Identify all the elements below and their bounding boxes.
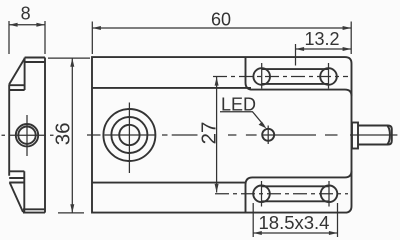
- dim 13.2 extension line: [295, 44, 297, 66]
- LED circle: [262, 129, 274, 141]
- main vertical crosshair of circle: [128, 103, 130, 174]
- bottom slot lines: [262, 186, 330, 201]
- side view left edge: [8, 84, 10, 176]
- svg-text:60: 60: [211, 10, 231, 30]
- side view right edge: [44, 58, 46, 213]
- step line A: [92, 87, 251, 89]
- bottom step vertical: [246, 177, 253, 212]
- sensor face circle middle: [111, 117, 147, 153]
- dim 18.5x3.4 line: [253, 232, 337, 234]
- sensor face circle outer: [103, 109, 155, 161]
- step line B left: [92, 182, 246, 184]
- main body outline: [92, 57, 352, 213]
- top step vertical: [246, 57, 352, 96]
- label 36: [51, 121, 74, 147]
- side view hole circle inner: [18, 127, 35, 144]
- dim 18.5x3.4 extension lines: [253, 203, 337, 237]
- top slot end ticks: [262, 63, 329, 89]
- connector flange: [352, 123, 358, 149]
- top slot lines: [262, 69, 329, 84]
- dimension lines: [9, 21, 351, 237]
- label 27: [198, 120, 221, 146]
- side view top chamfer: [9, 59, 24, 85]
- dim 8 extension lines: [9, 21, 45, 54]
- top slot end circles: [253, 68, 270, 85]
- dim 8 line: [9, 24, 45, 26]
- dim 60 extension lines: [92, 22, 351, 55]
- top slot centerline: [213, 76, 348, 78]
- connector barrel: [358, 126, 392, 145]
- dim 13.2 line: [296, 48, 352, 50]
- dim 60 line: [92, 27, 351, 29]
- connector end cap arc: [387, 126, 390, 144]
- side view bottom notch: [9, 171, 24, 212]
- sensor face circle inner: [119, 125, 139, 145]
- svg-text:36: 36: [51, 122, 74, 145]
- side view hole circle outer: [16, 124, 38, 146]
- bottom slot end ticks: [262, 181, 330, 207]
- main horizontal centerline: [87, 134, 198, 136]
- side view bottom chamfer: [10, 183, 23, 213]
- svg-text:LED: LED: [221, 95, 256, 115]
- side view bottom foot: [23, 209, 45, 212]
- bottom slot end circles: [253, 186, 270, 203]
- dim 36 line: [71, 58, 73, 213]
- side view vertical centerline: [26, 115, 28, 156]
- svg-text:13.2: 13.2: [304, 29, 339, 49]
- dim 36 extension lines: [48, 58, 90, 213]
- step line B right: [253, 171, 352, 178]
- dim 27 line: [216, 77, 218, 193]
- svg-text:27: 27: [198, 122, 221, 145]
- bottom slot centerline: [215, 193, 348, 195]
- side view top notch: [9, 85, 24, 90]
- svg-text:8: 8: [21, 4, 31, 24]
- svg-text:18.5x3.4: 18.5x3.4: [259, 212, 330, 233]
- side view horizontal centerline: [2, 134, 54, 136]
- LED leader line: [220, 112, 264, 126]
- LED circle vertical tick: [267, 126, 269, 145]
- side view top foot: [25, 58, 45, 91]
